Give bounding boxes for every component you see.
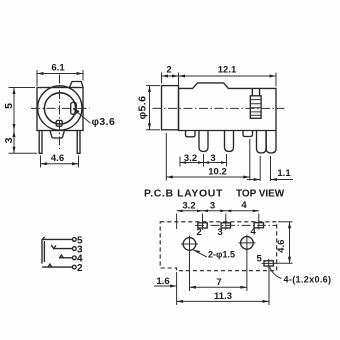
svg-text:φ3.6: φ3.6 — [92, 116, 116, 128]
leader 4-(1.2x0.6) — [270, 267, 282, 279]
horizontal centerline side — [153, 107, 285, 109]
dim 4.6 line — [41, 163, 79, 165]
svg-text:4-(1.2x0.6): 4-(1.2x0.6) — [284, 275, 332, 285]
svg-text:4: 4 — [241, 200, 247, 211]
spring ribs — [250, 100, 261, 116]
dim 10.2 line — [166, 176, 250, 178]
switch spring neck — [252, 88, 259, 95]
svg-text:7: 7 — [216, 277, 221, 288]
center bottom lug — [50, 131, 64, 139]
svg-text:3: 3 — [210, 200, 215, 211]
pad 2 slot — [198, 223, 207, 228]
dim 11.3 line — [177, 300, 269, 302]
pad 5 slot — [264, 261, 273, 266]
plastic post 1 (U) — [186, 131, 196, 137]
dim 5.6 extension lines — [146, 85, 160, 87]
pad 3 slot — [221, 223, 230, 228]
component outline dashed — [160, 222, 277, 271]
tip tick — [42, 237, 45, 240]
dim 12.1 line — [179, 75, 277, 77]
svg-text:2-φ1.5: 2-φ1.5 — [208, 250, 235, 260]
dim 2 / 12.1 extension lines — [161, 73, 163, 84]
vertical centerline — [59, 75, 61, 150]
inner bore circle — [44, 93, 75, 124]
dim 5.6 line — [149, 86, 151, 130]
dim 4.6 line pcb — [289, 222, 291, 263]
svg-text:11.3: 11.3 — [214, 291, 232, 302]
svg-text:3: 3 — [3, 137, 15, 143]
dim 3 line — [13, 131, 15, 154]
svg-text:5: 5 — [257, 254, 263, 265]
svg-text:4.6: 4.6 — [51, 153, 64, 164]
svg-text:2: 2 — [77, 263, 83, 274]
dim 7 extension lines — [189, 251, 191, 291]
svg-text:4: 4 — [251, 227, 257, 238]
top mounting tab — [70, 82, 84, 88]
dim 5 extension line top — [9, 87, 36, 89]
outer barrel circle — [38, 86, 82, 130]
mounting hole 1 — [183, 238, 196, 251]
bottom contact window — [56, 120, 62, 126]
terminal circle 2 — [72, 265, 76, 269]
dim 1.6 line — [154, 285, 177, 287]
pad 4 slot — [254, 223, 263, 228]
horizontal centerline — [31, 107, 90, 109]
dim 5 line — [13, 88, 15, 131]
sleeve line vertical 2 — [43, 241, 45, 262]
svg-text:φ5.6: φ5.6 — [136, 96, 148, 120]
wire pin 2 — [42, 266, 72, 268]
svg-text:3: 3 — [218, 227, 223, 238]
svg-text:2: 2 — [166, 65, 171, 76]
svg-text:6.1: 6.1 — [51, 63, 65, 74]
wire pin 5 — [42, 238, 72, 240]
svg-text:2: 2 — [197, 227, 202, 238]
dim 3.2 line — [180, 162, 227, 164]
sleeve line vertical 1 — [41, 239, 43, 263]
svg-text:1.6: 1.6 — [156, 276, 169, 287]
left pin front — [39, 131, 42, 154]
jack body square J1 front — [37, 88, 83, 131]
svg-text:3: 3 — [210, 153, 215, 164]
dim 2 line — [162, 75, 179, 77]
pin side A — [199, 131, 208, 152]
terminal circle 3 — [72, 247, 76, 251]
dim 4.6 extension lines — [40, 156, 42, 168]
svg-text:1.1: 1.1 — [277, 168, 291, 179]
top dims extension lines — [176, 214, 178, 230]
pad row centerline — [195, 224, 277, 226]
right pin front — [77, 131, 80, 154]
plastic post 2 (U) — [243, 131, 253, 137]
dim 1.1 extension lines — [259, 156, 261, 181]
dim 4.6 extension lines — [278, 221, 293, 223]
dim 1.1 line and outside arrows — [247, 179, 260, 181]
dim 3.2 / 3 extension lines — [179, 157, 181, 167]
pin side B — [225, 131, 234, 152]
svg-text:TOP VIEW: TOP VIEW — [236, 189, 285, 200]
contact caret pin 2 — [48, 264, 52, 268]
barrel bushing side — [162, 86, 179, 130]
svg-text:3.2: 3.2 — [184, 153, 197, 164]
dim 7 line — [190, 286, 247, 288]
pin side D — [266, 131, 276, 154]
wire pin 4 — [60, 257, 73, 259]
svg-text:10.2: 10.2 — [208, 167, 227, 178]
contact caret pin 4 — [59, 255, 63, 258]
jack body side outline — [179, 83, 277, 131]
contact tick pin 3 — [51, 245, 56, 249]
pin side C — [257, 131, 267, 154]
wire pin 3 — [54, 248, 73, 250]
switch spring ribbed box — [250, 96, 261, 119]
side contact window — [71, 102, 77, 114]
dim 11.3 extension lines — [176, 272, 178, 305]
dim 3 extension line bottom — [9, 152, 38, 154]
svg-text:P.C.B LAYOUT: P.C.B LAYOUT — [144, 188, 223, 200]
mounting hole 2 — [241, 237, 254, 250]
terminal circle 5 — [72, 238, 76, 242]
terminal circle 4 — [72, 256, 76, 260]
dim 6.1 line — [37, 73, 83, 75]
svg-text:5: 5 — [3, 103, 15, 109]
svg-text:3.2: 3.2 — [182, 200, 195, 211]
leader 2-dia1.5 — [193, 250, 207, 257]
svg-text:12.1: 12.1 — [218, 65, 237, 76]
svg-text:4.6: 4.6 — [276, 240, 287, 253]
dim 6.1 extension lines — [36, 70, 38, 86]
leader for dia 3.6 — [73, 109, 91, 124]
dim 10.2 extension lines — [165, 133, 167, 181]
dim 3.2 line pcb — [177, 210, 259, 212]
